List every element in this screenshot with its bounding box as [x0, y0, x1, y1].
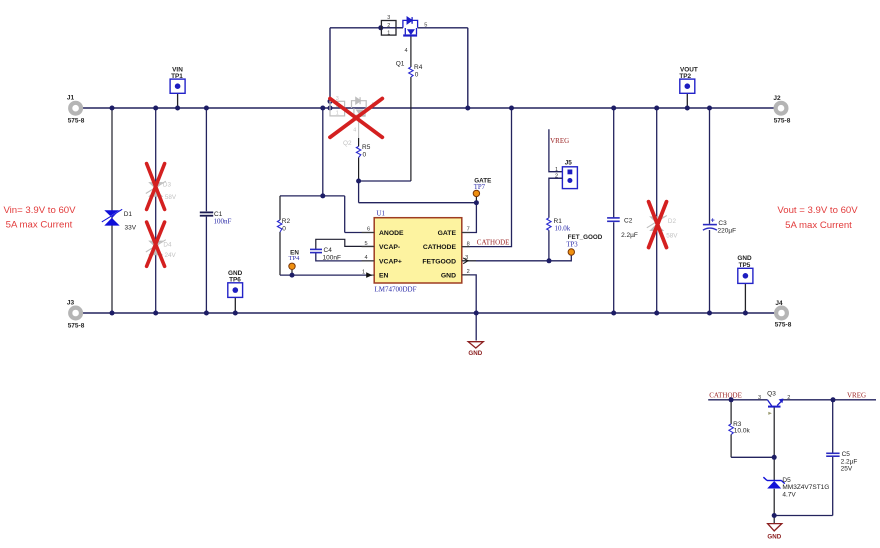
wire C5 bottom to GND node: [774, 515, 833, 517]
wire C4 bottom route to VCAP+: [316, 253, 374, 261]
svg-text:575-8: 575-8: [774, 118, 791, 125]
svg-text:7: 7: [467, 227, 470, 233]
resistor R1 10.0k: [547, 218, 571, 233]
connector J2: [773, 95, 790, 125]
wire C3 branch: [709, 108, 711, 313]
capacitor C1 100nF: [200, 211, 232, 226]
wire gate join horizontal: [359, 180, 411, 182]
svg-text:J2: J2: [773, 95, 781, 102]
DNP diode D4 24V: [146, 240, 177, 259]
wire EN line: [280, 274, 372, 276]
wire TP5 stem: [744, 283, 746, 313]
svg-text:D3: D3: [163, 181, 172, 188]
svg-text:TP4: TP4: [289, 255, 301, 262]
wire GATE pin7 connection: [462, 203, 477, 233]
wire Q1 loop right vertical: [467, 28, 469, 108]
svg-text:0: 0: [282, 225, 286, 232]
svg-text:2: 2: [467, 269, 470, 275]
wire gate bus horizontal to TP7 node: [359, 202, 477, 204]
DNP MOSFET Q2: [330, 96, 375, 147]
svg-text:R5: R5: [362, 144, 371, 151]
svg-text:TP7: TP7: [474, 184, 486, 191]
svg-text:100nF: 100nF: [214, 217, 232, 225]
power MOSFET Q1: [381, 15, 427, 67]
wire Q1 pin5 to loop right: [418, 27, 468, 29]
svg-text:5: 5: [424, 23, 427, 29]
svg-text:2: 2: [787, 395, 790, 401]
svg-text:6: 6: [367, 227, 370, 233]
red X over D2: [649, 202, 667, 248]
test point TP2 VOUT: [679, 67, 698, 94]
svg-text:C3: C3: [718, 220, 727, 227]
svg-text:ANODE: ANODE: [379, 230, 404, 237]
svg-text:10.0k: 10.0k: [734, 428, 751, 435]
svg-text:220µF: 220µF: [718, 227, 737, 234]
svg-text:Q3: Q3: [767, 391, 776, 398]
svg-text:3: 3: [387, 15, 390, 21]
svg-text:1: 1: [336, 111, 339, 117]
wire R3 bottom horizontal: [731, 456, 774, 458]
U1 pin names: [379, 230, 456, 280]
svg-text:1: 1: [362, 269, 365, 275]
U1 pin numbers: [362, 227, 470, 276]
U1 FETGOOD output arrow: [463, 258, 468, 264]
U1 pin stubs right: [462, 233, 476, 275]
IC U1 LM74700DDF: [362, 210, 476, 294]
wire TP2 stem: [686, 93, 688, 108]
svg-text:+: +: [711, 218, 715, 225]
svg-text:FETGOOD: FETGOOD: [422, 258, 456, 265]
svg-text:TP1: TP1: [171, 73, 183, 80]
resistor R2 0: [277, 218, 290, 232]
svg-text:575-8: 575-8: [68, 118, 85, 125]
svg-text:Vout = 3.9V to 60V: Vout = 3.9V to 60V: [777, 205, 858, 216]
svg-text:2.2µF: 2.2µF: [621, 232, 638, 239]
DNP TVS diode D2 58V: [647, 216, 679, 240]
red X over D4: [147, 222, 165, 266]
resistor R4 0: [409, 64, 423, 79]
svg-text:D4: D4: [163, 242, 172, 249]
annotation Vin red text: [3, 205, 76, 231]
svg-text:TP6: TP6: [229, 277, 241, 284]
svg-text:D1: D1: [124, 211, 133, 218]
svg-text:0: 0: [415, 72, 419, 79]
wire cathode horizontal left: [708, 399, 767, 401]
svg-text:C5: C5: [842, 451, 851, 458]
wire anode jog vertical: [344, 196, 346, 233]
wire TP1 stem: [177, 93, 179, 108]
svg-text:GATE: GATE: [438, 230, 457, 237]
svg-text:C2: C2: [624, 218, 633, 225]
wire Q1 gate through R4: [410, 36, 412, 181]
wire D3 D4 branch: [155, 108, 157, 313]
svg-text:5: 5: [364, 241, 367, 247]
U1 EN input arrow: [366, 272, 372, 278]
capacitor C3 220uF polarized: [703, 218, 736, 235]
annotation Vout red text: [777, 205, 858, 231]
svg-text:U1: U1: [376, 210, 385, 218]
transistor Q3: [758, 391, 790, 415]
capacitor C2 2.2uF: [607, 218, 638, 240]
svg-text:VCAP-: VCAP-: [379, 244, 400, 251]
svg-text:2: 2: [387, 23, 390, 29]
svg-text:TP2: TP2: [679, 73, 691, 80]
wire gate down to gate bus: [358, 181, 360, 203]
svg-text:GND: GND: [441, 273, 456, 280]
resistor R3 10.0k: [729, 421, 751, 435]
wire D2 branch: [656, 108, 658, 313]
svg-text:58V: 58V: [165, 194, 177, 201]
zener diode D5 MM3Z4V7ST1G: [763, 477, 829, 499]
wire R3 branch: [730, 400, 732, 458]
svg-text:LM74700DDF: LM74700DDF: [375, 285, 417, 293]
red X over D3: [147, 164, 165, 210]
wire C2 branch: [613, 108, 615, 313]
TVS diode D1 33V: [102, 209, 137, 231]
wire ANODE pin6 connection: [345, 232, 375, 234]
svg-text:CATHODE: CATHODE: [423, 244, 457, 251]
test point TP6 GND: [228, 270, 243, 298]
svg-text:VREG: VREG: [550, 137, 569, 145]
test point TP5 GND: [737, 255, 753, 284]
test point TP7 GATE: [473, 178, 491, 197]
svg-text:5A max Current: 5A max Current: [6, 220, 73, 231]
wire GND pin2 connection: [462, 275, 476, 341]
ground symbol subcircuit GND: [767, 524, 781, 541]
svg-text:4.7V: 4.7V: [782, 492, 796, 499]
test point TP1 VIN: [170, 67, 185, 94]
wire anode branch vertical: [322, 108, 324, 196]
svg-text:TP5: TP5: [739, 262, 751, 269]
junction dots misc: [290, 25, 552, 277]
svg-text:4: 4: [405, 48, 408, 54]
wire C5 branch: [832, 400, 834, 516]
junction dots bottom rail: [110, 311, 748, 316]
svg-text:C4: C4: [324, 247, 333, 254]
svg-text:J4: J4: [775, 300, 783, 307]
connector J1: [67, 95, 85, 125]
wire R2 net horizontal: [280, 195, 345, 197]
svg-text:GND: GND: [767, 534, 781, 541]
svg-text:R2: R2: [282, 218, 291, 225]
svg-text:VREG: VREG: [847, 391, 866, 399]
capacitor C5 2.2uF 25V: [826, 451, 857, 472]
connector J5: [549, 160, 578, 189]
svg-text:Vin= 3.9V to 60V: Vin= 3.9V to 60V: [3, 205, 76, 216]
test point TP3 FET_GOOD: [566, 234, 602, 255]
svg-text:100nF: 100nF: [323, 255, 341, 262]
svg-text:VCAP+: VCAP+: [379, 258, 402, 265]
wire bottom rail GND: [82, 312, 775, 314]
wire Q1 loop left vertical: [329, 28, 331, 108]
wire C4 top route to VCAP-: [316, 239, 374, 249]
svg-text:J5: J5: [565, 160, 573, 167]
DNP diode D3 58V: [146, 181, 177, 201]
wire TP7 stem: [475, 197, 477, 203]
Q1 FET body: [396, 27, 403, 29]
svg-text:D2: D2: [668, 218, 677, 225]
svg-text:10.0k: 10.0k: [555, 224, 571, 232]
wire R2 vertical through R2: [279, 196, 281, 275]
wire vreg horizontal right: [782, 399, 876, 401]
svg-text:CATHODE: CATHODE: [709, 391, 742, 399]
capacitor C4 100nF: [310, 247, 341, 262]
junction dots top rail: [110, 99, 713, 111]
wire top rail VIN: [82, 107, 775, 109]
svg-text:25V: 25V: [841, 466, 853, 473]
svg-text:D5: D5: [782, 477, 791, 484]
svg-text:Q2: Q2: [343, 140, 352, 147]
svg-text:2: 2: [555, 174, 558, 180]
svg-text:Q1: Q1: [396, 60, 405, 67]
wire J5 pin2 through R1 to FETGOOD: [549, 178, 563, 261]
connector J4: [775, 300, 792, 329]
wire FETGOOD pin3 connection: [462, 255, 572, 261]
svg-text:1: 1: [555, 167, 558, 173]
svg-text:33V: 33V: [125, 225, 137, 232]
wire TP6 stem: [234, 297, 236, 313]
resistor R5 0: [356, 144, 370, 159]
wire Q2 gate through R5: [358, 138, 360, 181]
svg-text:1: 1: [387, 30, 390, 36]
svg-text:R4: R4: [414, 64, 423, 71]
svg-text:TP3: TP3: [566, 242, 578, 249]
svg-text:3: 3: [758, 395, 761, 401]
Q1 pins 1-2-3 box: [381, 15, 396, 36]
svg-text:5A max Current: 5A max Current: [785, 220, 852, 231]
svg-text:CATHODE: CATHODE: [477, 239, 510, 247]
test point TP4 EN: [289, 249, 301, 269]
svg-text:MM3Z4V7ST1G: MM3Z4V7ST1G: [782, 484, 829, 491]
wire CATHODE pin8 connection: [462, 108, 512, 247]
svg-text:575-8: 575-8: [775, 322, 792, 329]
svg-text:J3: J3: [67, 300, 75, 307]
wire D1 branch: [111, 108, 113, 313]
svg-text:J1: J1: [67, 95, 75, 102]
red X over Q2: [330, 99, 382, 138]
svg-text:575-8: 575-8: [68, 323, 85, 330]
svg-text:3: 3: [465, 255, 468, 261]
wire TP4 stem: [291, 269, 293, 275]
wire VREG stub to J5 pin1: [549, 129, 563, 172]
ground symbol main GND: [468, 342, 483, 357]
svg-text:24V: 24V: [165, 252, 177, 259]
svg-text:0: 0: [363, 152, 367, 159]
wire Q1 loop top left segment: [330, 27, 403, 29]
svg-text:GND: GND: [468, 350, 482, 357]
svg-text:4: 4: [364, 255, 367, 261]
connector J3: [67, 300, 85, 330]
svg-text:FET_GOOD: FET_GOOD: [568, 234, 603, 241]
svg-text:8: 8: [467, 242, 470, 248]
svg-text:EN: EN: [379, 273, 389, 280]
subcircuit junction dots: [729, 397, 836, 518]
wire Q3 collector down to D5 and GND: [773, 408, 775, 524]
U1 pin stubs left: [362, 233, 375, 276]
svg-text:58V: 58V: [666, 233, 678, 240]
svg-text:4: 4: [353, 128, 356, 134]
wire C1 branch: [205, 108, 207, 313]
svg-text:GND: GND: [737, 255, 752, 262]
